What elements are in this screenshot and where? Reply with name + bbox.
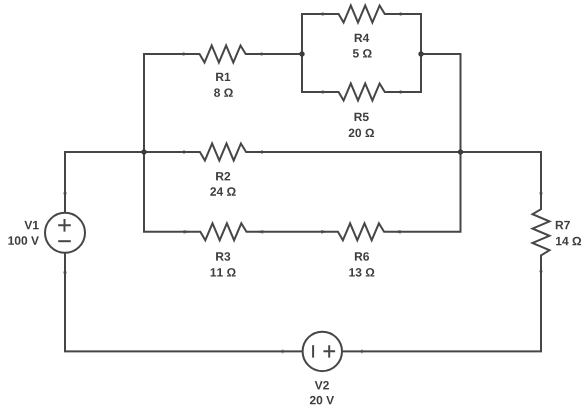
wire: R3 branch from vertical bus to R3 left pin <box>143 231 188 233</box>
wire: parallel box right vertical <box>420 13 422 93</box>
label R6 value: 13 Ω <box>349 268 374 277</box>
wire: R4 branch right lead-out to box right corner <box>397 13 422 15</box>
pin: R3 left terminal <box>183 230 185 234</box>
label R1 name: R1 <box>216 73 230 81</box>
pin: V1 positive terminal <box>63 192 67 194</box>
label V2 name: V2 <box>315 381 329 389</box>
label R3 name: R3 <box>216 252 230 261</box>
node B: right junction of R4/R5 parallel box <box>418 51 423 56</box>
pin: R6 left terminal <box>321 230 323 234</box>
pin: R7 top terminal <box>539 192 543 194</box>
label V1 value: 100 V <box>8 236 39 245</box>
label V2 value: 20 V <box>310 396 334 405</box>
wire: R1 right pin to node A <box>258 53 302 55</box>
pin: V1 negative terminal <box>63 272 67 274</box>
resistor R6 (13 ohm) <box>322 223 400 240</box>
pin: R2 left terminal <box>183 150 185 154</box>
label R2 value: 24 Ω <box>210 187 235 195</box>
resistor R1 (8 ohm) <box>184 46 262 63</box>
voltage source V2 (20 V) circle <box>303 332 342 371</box>
wire: from node C down to R6 branch <box>460 152 462 232</box>
pin: R5 right terminal <box>400 90 402 94</box>
label R4 name: R4 <box>355 34 370 42</box>
node C: junction of R4/R5 feed with middle rail <box>458 149 463 154</box>
wire: parallel box left vertical (node A up/down to R4 and R5) <box>301 13 303 93</box>
pin: R7 bottom terminal <box>539 270 543 272</box>
pin: R4 right terminal <box>400 12 402 16</box>
V2 minus bar (left terminal) <box>312 345 314 357</box>
wire: node B right then down to middle rail node C <box>420 54 461 152</box>
pin: R6 right terminal <box>399 230 401 234</box>
wire: middle rail from left rail to R2 left pin <box>64 151 187 153</box>
resistor R2 (24 ohm) <box>184 144 262 161</box>
wire: bottom rail from V2 left terminal to left rail <box>64 350 303 352</box>
pin: R5 left terminal <box>322 90 324 94</box>
wire: R6 right pin to vertical at node C column <box>397 231 462 233</box>
wire: vertical bus at x=144 from R1 branch to R3 branch <box>143 53 145 232</box>
pin: V2 right terminal <box>361 350 363 354</box>
wire: bottom rail from right rail to V2 right terminal <box>342 350 542 352</box>
wire: R5 branch left lead-in from box left corner <box>301 91 326 93</box>
pin: R2 right terminal <box>261 150 263 154</box>
label V1 name: V1 <box>24 221 38 229</box>
resistor R4 (5 ohm) <box>323 6 401 23</box>
V1 plus sign <box>58 219 71 232</box>
label R2 name: R2 <box>216 172 230 180</box>
wire: left rail from bottom rail up to V1 negative terminal <box>64 253 66 352</box>
wire: left rail from V1 positive terminal up to middle rail <box>64 153 66 213</box>
pin: R1 left terminal <box>183 52 185 56</box>
label R3 value: 11 Ω <box>211 268 236 276</box>
voltage source V1 (100 V) circle <box>45 213 85 253</box>
label R7 value: 14 Ω <box>556 237 581 245</box>
resistor R5 (20 ohm) <box>323 84 401 101</box>
label R7 name: R7 <box>556 221 570 229</box>
V1 minus sign <box>58 240 71 242</box>
wire: between R3 right pin and R6 left pin <box>259 231 325 233</box>
label R5 name: R5 <box>355 113 369 121</box>
wire: middle rail from R2 right pin to right rail corner <box>259 151 542 153</box>
pin: V2 left terminal <box>282 350 284 354</box>
wire: right rail from R7 bottom pin to bottom rail <box>540 269 542 353</box>
wire: R5 branch right lead-out to box right corner <box>397 91 422 93</box>
V2 plus sign (right terminal) <box>323 345 335 357</box>
pin: R1 right terminal <box>261 52 263 56</box>
wire: R1 branch from vertical bus to R1 left pin <box>143 53 187 55</box>
wire: R4 branch left lead-in from box left corner <box>301 13 326 15</box>
resistor R7 (14 ohm, vertical) <box>533 193 550 271</box>
resistor R3 (11 ohm) <box>184 223 262 240</box>
label R4 value: 5 Ω <box>353 49 372 58</box>
pin: R3 right terminal <box>261 230 263 234</box>
pin: R4 left terminal <box>322 12 324 16</box>
label R5 value: 20 Ω <box>349 129 374 138</box>
node A: left junction of R4/R5 parallel box <box>299 51 304 56</box>
node: junction of vertical bus and middle rail <box>141 149 146 154</box>
label R6 name: R6 <box>355 252 369 261</box>
wire: right rail from middle rail down to R7 top pin <box>540 151 542 196</box>
label R1 value: 8 Ω <box>214 88 233 97</box>
